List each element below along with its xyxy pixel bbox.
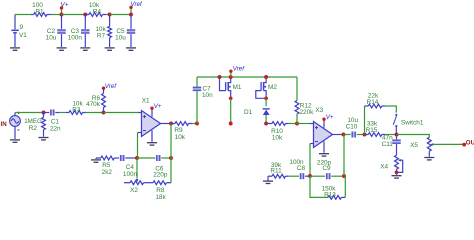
wire X1 output bbox=[161, 123, 172, 125]
svg-text:R4: R4 bbox=[93, 8, 102, 15]
svg-text:D1: D1 bbox=[244, 109, 253, 116]
wire output to feedback bbox=[170, 124, 172, 159]
svg-text:100n: 100n bbox=[123, 171, 138, 178]
potentiometer X2 bbox=[124, 181, 150, 194]
svg-text:OUT: OUT bbox=[466, 140, 474, 147]
svg-text:10k: 10k bbox=[175, 134, 186, 141]
svg-text:220p: 220p bbox=[153, 172, 168, 179]
capacitor C7 10n bbox=[193, 77, 213, 124]
wire junction A to X2 wiper bbox=[136, 158, 139, 182]
svg-text:X2: X2 bbox=[130, 187, 138, 194]
svg-text:X5: X5 bbox=[410, 142, 418, 149]
resistor R5 2k2 bbox=[96, 156, 117, 176]
switch Switch1 bbox=[393, 114, 424, 135]
wire R4 to R7 node bbox=[106, 14, 110, 16]
svg-text:V+: V+ bbox=[326, 114, 334, 121]
node M1 source junction bbox=[229, 96, 233, 100]
op-amp X1 bbox=[142, 98, 161, 137]
resistor R8 18k bbox=[150, 181, 171, 201]
svg-text:100n: 100n bbox=[68, 34, 83, 41]
net label Vref (M1) bbox=[229, 65, 245, 77]
node X3 feedback junction bbox=[342, 174, 346, 178]
ground (X5) bbox=[424, 151, 434, 160]
svg-text:R11: R11 bbox=[270, 168, 282, 175]
net label V+ (X1 supply) bbox=[150, 103, 162, 117]
resistor R13 150k loop bbox=[310, 176, 345, 199]
svg-text:C4: C4 bbox=[126, 164, 135, 171]
svg-text:V+: V+ bbox=[154, 103, 162, 110]
ground (C2) bbox=[57, 48, 67, 50]
svg-text:10k: 10k bbox=[272, 135, 283, 142]
ground (V1) bbox=[10, 48, 20, 50]
node V+ junction bbox=[60, 13, 64, 17]
svg-text:C9: C9 bbox=[322, 165, 331, 172]
svg-text:R5: R5 bbox=[102, 162, 111, 169]
capacitor C2 10u bbox=[46, 15, 66, 48]
wire R15 to switch node bbox=[385, 134, 397, 136]
node signal junction (D1) bbox=[264, 122, 268, 126]
ground (X4) bbox=[392, 172, 402, 178]
node C10 junction bbox=[363, 133, 367, 137]
resistor R3 10k bbox=[66, 100, 86, 114]
node X1 output junction bbox=[169, 122, 173, 126]
wire R3 to R6 node bbox=[86, 112, 104, 114]
svg-text:Vref: Vref bbox=[105, 83, 118, 90]
node M1 drain junction bbox=[229, 75, 233, 79]
wire C1 to R3 bbox=[59, 112, 66, 114]
ground (VG1) bbox=[10, 140, 20, 142]
net label Vref (R6) bbox=[102, 83, 118, 90]
node switch junction bbox=[395, 133, 399, 137]
wire Vref rail (middle) bbox=[197, 76, 297, 78]
capacitor C5 10u bbox=[115, 15, 135, 48]
node feedback junction B bbox=[169, 156, 173, 160]
transistor M1 bbox=[220, 77, 242, 97]
resistor R6 470k bbox=[86, 89, 105, 112]
resistor R4 10k bbox=[85, 2, 106, 16]
node feedback junction A bbox=[135, 156, 139, 160]
svg-text:R3: R3 bbox=[72, 107, 81, 114]
net label V+ (supply) bbox=[60, 1, 69, 14]
wire X3 output to feedback bbox=[343, 135, 345, 177]
node M1 gate junction bbox=[218, 75, 222, 79]
svg-text:R15: R15 bbox=[366, 127, 378, 134]
svg-text:V+: V+ bbox=[61, 1, 69, 8]
battery V1 bbox=[11, 15, 27, 48]
net label V+ (X3 supply) bbox=[322, 114, 334, 128]
X1 V- supply to ground bbox=[147, 130, 157, 145]
capacitor C10 10u bbox=[344, 117, 365, 138]
svg-text:V1: V1 bbox=[19, 32, 27, 39]
svg-text:470k: 470k bbox=[86, 101, 101, 108]
wire R6 node to op-amp X1 +in bbox=[104, 112, 139, 114]
ground (R7) bbox=[105, 48, 115, 50]
resistor R2 1MEG bbox=[24, 113, 45, 137]
resistor R9 10k bbox=[171, 122, 192, 141]
capacitor C4 100n bbox=[117, 155, 137, 178]
wire VG1 to R2 node bbox=[15, 112, 44, 114]
resistor R14 22k bbox=[365, 93, 386, 135]
node M2 drain junction bbox=[264, 75, 268, 79]
node R6 junction bbox=[102, 111, 106, 115]
potentiometer X5 bbox=[410, 137, 433, 151]
svg-text:10n: 10n bbox=[202, 92, 213, 99]
potentiometer X4 bbox=[380, 155, 402, 172]
node Vref junction bbox=[129, 13, 133, 17]
svg-text:Switch1: Switch1 bbox=[401, 120, 424, 127]
svg-text:R7: R7 bbox=[97, 33, 106, 40]
svg-text:9: 9 bbox=[20, 24, 24, 31]
resistor R12 220k bbox=[295, 77, 314, 124]
node C3 junction bbox=[83, 13, 87, 17]
net label OUT bbox=[462, 140, 474, 147]
resistor R15 33k bbox=[365, 120, 386, 136]
svg-text:C8: C8 bbox=[297, 165, 306, 172]
svg-text:Vref: Vref bbox=[233, 65, 246, 72]
node C7 junction bbox=[195, 122, 199, 126]
svg-text:C10: C10 bbox=[346, 124, 358, 131]
wire R7 node to Vref node bbox=[110, 14, 131, 16]
svg-text:X1: X1 bbox=[142, 98, 150, 105]
svg-text:R14: R14 bbox=[367, 99, 379, 106]
op-amp X3 bbox=[314, 107, 333, 148]
capacitor C9 220p bbox=[310, 160, 344, 180]
wire X3 -in feedback bbox=[310, 144, 314, 177]
svg-text:M2: M2 bbox=[268, 84, 277, 91]
svg-text:C11: C11 bbox=[382, 141, 394, 148]
ground (C5) bbox=[126, 48, 136, 50]
wire R1 to node V+ bbox=[51, 14, 62, 16]
svg-text:220k: 220k bbox=[300, 109, 315, 116]
wire M1 source to signal bbox=[230, 98, 232, 123]
svg-text:C1: C1 bbox=[51, 119, 60, 126]
capacitor C6 220p bbox=[137, 155, 171, 179]
resistor R10 10k bbox=[266, 122, 288, 142]
svg-text:22n: 22n bbox=[50, 126, 61, 133]
node X4 wiper junction bbox=[395, 171, 399, 175]
node X3 output junction bbox=[342, 133, 346, 137]
capacitor C8 100n bbox=[289, 159, 311, 179]
resistor R7 10k bbox=[95, 15, 111, 48]
svg-text:10u: 10u bbox=[115, 34, 126, 41]
wire V+ to C3 node bbox=[62, 14, 86, 16]
node X3 -in junction bbox=[308, 174, 312, 178]
wire R10 to R12 node bbox=[289, 123, 298, 125]
wire R12 node to X3 +in bbox=[297, 123, 314, 125]
wire switch node to X5 bbox=[397, 135, 430, 138]
svg-text:R2: R2 bbox=[29, 125, 38, 132]
wire R8 to junction B bbox=[170, 158, 172, 183]
wire X5 wiper to OUT bbox=[433, 143, 463, 145]
svg-text:2k2: 2k2 bbox=[102, 169, 113, 176]
wire R9 to C7 node bbox=[192, 123, 197, 125]
svg-text:X3: X3 bbox=[315, 107, 323, 114]
svg-text:R13: R13 bbox=[324, 192, 336, 199]
net label Vref (top) bbox=[129, 1, 143, 15]
svg-text:Vref: Vref bbox=[131, 1, 144, 8]
svg-text:IN: IN bbox=[1, 121, 8, 128]
capacitor C11 47n bbox=[382, 135, 401, 156]
svg-text:M1: M1 bbox=[233, 84, 242, 91]
ground (C3) bbox=[80, 48, 90, 50]
X3 V- supply to ground bbox=[319, 141, 329, 156]
node R12 junction bbox=[295, 122, 299, 126]
svg-text:10u: 10u bbox=[46, 34, 57, 41]
ground (R11) bbox=[263, 176, 273, 183]
resistor R1 100 bbox=[31, 2, 51, 16]
wire X3 output bbox=[333, 134, 344, 136]
resistor R11 39k bbox=[268, 162, 289, 178]
svg-text:R9: R9 bbox=[174, 127, 183, 134]
svg-text:R1: R1 bbox=[35, 8, 44, 15]
transistor M2 bbox=[256, 77, 278, 98]
capacitor C1 22n bbox=[44, 110, 62, 133]
capacitor C3 100n bbox=[68, 15, 90, 48]
wire V1 top to R1 bbox=[15, 14, 31, 16]
node R7 junction bbox=[108, 13, 112, 17]
svg-text:1MEG: 1MEG bbox=[24, 118, 42, 125]
source VG1 bbox=[10, 112, 21, 139]
diode D1 bbox=[244, 98, 270, 123]
ground (R2) bbox=[39, 138, 49, 140]
svg-text:18k: 18k bbox=[155, 194, 166, 200]
node signal junction (M1) bbox=[229, 122, 233, 126]
wire R14 to switch bbox=[385, 106, 396, 113]
ground (R5) bbox=[91, 158, 101, 162]
svg-text:X4: X4 bbox=[380, 163, 388, 170]
node M2 source junction bbox=[264, 96, 268, 100]
wire X1 -in feedback bbox=[138, 133, 142, 159]
node R2 junction bbox=[42, 111, 46, 115]
